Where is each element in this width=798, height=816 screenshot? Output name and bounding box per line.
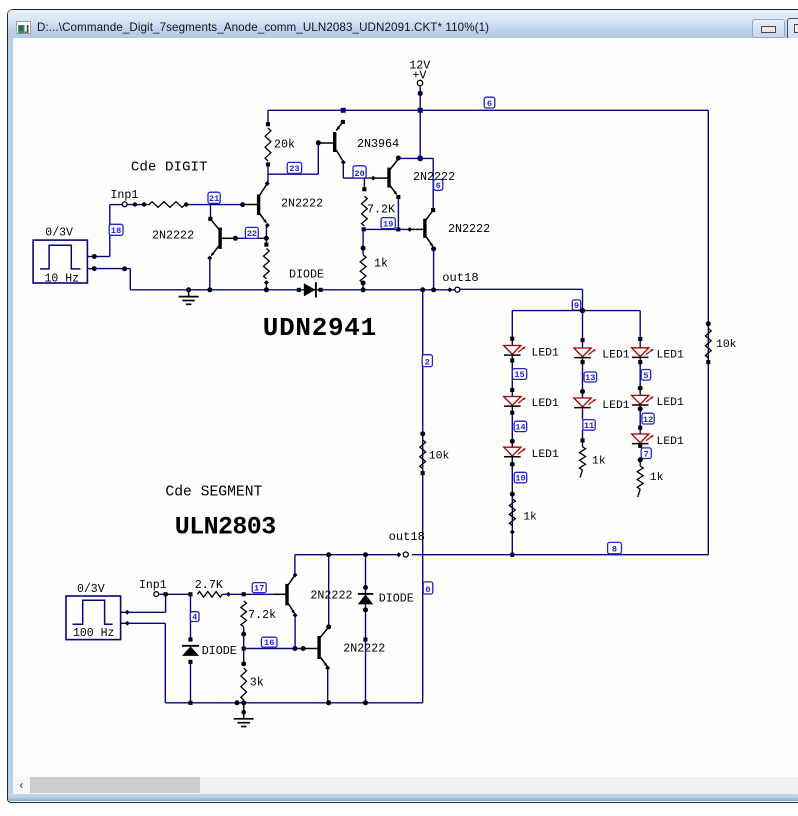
node 22 [233, 236, 238, 241]
wire 12V to right vertical [707, 110, 709, 554]
wire LED bottom rail y=554.7 [412, 554, 709, 556]
resistor 7.2K [362, 187, 366, 191]
minimize button [752, 19, 785, 38]
ground (top section) [186, 287, 191, 292]
svg-text:LED1: LED1 [657, 436, 685, 448]
node 4 [190, 612, 199, 622]
wire bottom rail y=702.8 [165, 702, 422, 704]
wire source2 bottom pin to rail [127, 622, 165, 624]
svg-text:13: 13 [585, 373, 595, 383]
title bar [8, 10, 798, 38]
node 21 [240, 202, 245, 207]
node 18 [109, 224, 123, 235]
maximize button (partial) [787, 18, 798, 39]
node 6 (Q4 collector) [434, 180, 443, 191]
svg-text:100 Hz: 100 Hz [73, 627, 114, 640]
svg-text:1k: 1k [523, 512, 537, 524]
wire long vertical x=422.7 [422, 290, 424, 703]
svg-text:LED1: LED1 [532, 347, 560, 359]
wire LED column 1 [511, 311, 513, 555]
node 13 [584, 372, 597, 382]
node 19 [381, 218, 395, 229]
svg-text:10k: 10k [716, 339, 737, 351]
title text [37, 21, 489, 34]
svg-text:Cde DIGIT: Cde DIGIT [131, 160, 208, 176]
svg-text:9: 9 [574, 301, 579, 311]
resistor 1k (top section) [362, 229, 364, 254]
svg-text:0: 0 [425, 585, 430, 595]
transistor Q1 2N2222 (upper left) [265, 181, 270, 186]
transistor Q6 2N2222 (bottom lower) [303, 648, 318, 650]
resistor (Inp1 series, unlabeled) [149, 202, 185, 208]
transistor Q4 2N2222 (right) [407, 227, 412, 232]
node 7 [641, 448, 651, 459]
svg-text:4: 4 [192, 612, 197, 622]
node 9 [572, 300, 580, 310]
wire ground rail y=289.8 [130, 289, 455, 291]
svg-text:out18: out18 [389, 530, 425, 544]
svg-text:11: 11 [584, 421, 594, 431]
LED1 c2-2 [580, 389, 585, 394]
pulse source 0/3V 10 Hz [33, 240, 87, 283]
resistor 3k [241, 661, 246, 666]
transistor Q2 2N2222 (mirrored, lower left) [210, 205, 212, 219]
wire Inp1 row y=594.3 [159, 593, 191, 595]
svg-text:23: 23 [289, 164, 299, 174]
svg-text:16: 16 [264, 638, 274, 648]
wire Q5 emitter down [294, 615, 296, 648]
LED1 c3-1 [638, 337, 642, 341]
wire diode-left drop x=190.5 [190, 594, 192, 639]
svg-text:22: 22 [247, 229, 257, 239]
svg-text:1k: 1k [592, 455, 606, 467]
wire Q1 emitter column x=266 [265, 225, 267, 244]
node 23 junction dot [316, 140, 321, 145]
svg-text:14: 14 [515, 422, 525, 432]
wire +V bus y=110 [268, 109, 708, 111]
wire 7.2K stub [363, 178, 365, 189]
svg-text:20: 20 [354, 169, 364, 179]
svg-text:19: 19 [383, 219, 393, 229]
svg-text:1k: 1k [650, 472, 664, 484]
horizontal scrollbar [13, 777, 798, 794]
resistor (Q1 emitter, unlabeled) [264, 243, 268, 247]
svg-text:15: 15 [514, 370, 524, 380]
wire collector row y=158.4 [398, 157, 433, 159]
wire Q6 collector up [328, 555, 330, 627]
svg-text:Inp1: Inp1 [139, 579, 167, 592]
svg-text:2: 2 [425, 357, 430, 367]
resistor 1k c2 [581, 438, 585, 442]
resistor 1k c3 [638, 457, 643, 462]
node 16 [261, 637, 277, 647]
svg-text:2N2222: 2N2222 [310, 588, 352, 602]
node 14 [514, 421, 527, 431]
svg-text:LED1: LED1 [657, 397, 685, 409]
source pin bottom [87, 268, 94, 270]
wire diode-left to rail [190, 662, 192, 703]
junctions on bottom rail [188, 701, 192, 705]
junction rail/long vertical [420, 287, 425, 292]
node 11 [583, 420, 595, 431]
junction c1 rail [510, 553, 514, 557]
svg-text:out18: out18 [442, 271, 478, 285]
wire 20k bottom / node 23 tee [267, 165, 269, 184]
node 17 [252, 583, 266, 593]
pulse source 0/3V 100 Hz [66, 596, 121, 640]
junction Q2 emitter rail [207, 287, 212, 292]
svg-text:2N2222: 2N2222 [152, 228, 194, 242]
svg-text:12: 12 [643, 415, 653, 425]
node 6 (bus) [484, 97, 495, 108]
diode DIODE (bottom left) [188, 638, 192, 642]
bottom frame strip [8, 793, 798, 801]
transistor Q7 2N3964 (PNP) [341, 120, 345, 124]
LED1 c1-1 [510, 337, 514, 341]
svg-text:10 Hz: 10 Hz [45, 273, 80, 286]
source2 pin top [121, 611, 128, 613]
svg-text:DIODE: DIODE [202, 644, 237, 658]
svg-text:LED1: LED1 [602, 349, 630, 361]
svg-text:LED1: LED1 [657, 349, 685, 361]
svg-text:7: 7 [644, 449, 649, 459]
svg-text:7.2K: 7.2K [367, 203, 395, 217]
svg-text:17: 17 [254, 583, 264, 593]
node 8 [608, 542, 622, 553]
ground (bottom section) [243, 703, 245, 719]
source2 pin bottom [121, 622, 128, 624]
wire Q4 emitter to rail [433, 249, 435, 290]
wire 2N3964 collector to node 20 row [342, 162, 344, 178]
wire LED column 3 [639, 311, 641, 449]
svg-text:UDN2941: UDN2941 [263, 313, 377, 343]
svg-text:Inp1: Inp1 [110, 188, 138, 202]
diode DIODE (bottom right) [365, 555, 367, 703]
wire Q3 emitter drop [397, 197, 399, 229]
wire LED column 2 [582, 311, 584, 420]
svg-text:6: 6 [487, 99, 492, 109]
LED1 c1-3 [510, 439, 515, 444]
node 5 [641, 370, 651, 381]
node 20 [353, 166, 366, 178]
svg-text:0/3V: 0/3V [77, 583, 105, 596]
svg-text:2N2222: 2N2222 [343, 642, 385, 656]
svg-text:6: 6 [436, 181, 441, 191]
wire out18 row to Q5 collector corner [295, 554, 397, 556]
node 10 [514, 472, 527, 483]
source pin top [87, 256, 94, 258]
resistor 10k (right) [706, 321, 711, 326]
wire source bottom to ground rail [94, 268, 130, 270]
svg-text:DIODE: DIODE [289, 267, 324, 281]
wire drop to Q4 collector x=433 [432, 158, 434, 210]
resistor 1k c1 [510, 492, 515, 497]
svg-text:20k: 20k [274, 138, 295, 152]
svg-text:18: 18 [111, 226, 121, 236]
node 2 [422, 355, 432, 367]
svg-text:0/3V: 0/3V [45, 227, 73, 240]
wire Q2 emitter to rail [209, 258, 211, 290]
svg-text:LED1: LED1 [532, 449, 560, 461]
wire bus left drop to 20k [267, 110, 269, 124]
svg-text:2.7K: 2.7K [195, 578, 223, 592]
transistor Q5 2N2222 (bottom upper) [275, 593, 287, 595]
svg-text:10k: 10k [429, 451, 450, 463]
wire Q5 collector up [294, 555, 296, 575]
resistor 10k (middle) [420, 431, 425, 436]
node 15 [512, 369, 526, 380]
wire Q6 emitter to rail [327, 668, 329, 703]
svg-text:3k: 3k [250, 676, 264, 690]
svg-text:10: 10 [515, 474, 525, 484]
node 0 [423, 582, 433, 594]
LED1 c1-2 [510, 388, 514, 392]
svg-text:21: 21 [209, 194, 219, 204]
transistor Q3 2N2222 (middle) [373, 177, 388, 179]
LED1 c2-1 [581, 338, 585, 342]
wire LED top row y=310.6 [512, 310, 640, 312]
node 23 [287, 162, 301, 173]
node 12 [642, 413, 654, 424]
svg-text:LED1: LED1 [532, 398, 560, 410]
svg-text:5: 5 [643, 371, 648, 381]
svg-text:DIODE: DIODE [379, 592, 414, 606]
LED1 c3-2 [638, 386, 643, 391]
svg-text:8: 8 [612, 545, 617, 555]
svg-text:1k: 1k [374, 257, 388, 271]
document icon [16, 21, 31, 34]
svg-text:2N2222: 2N2222 [448, 222, 490, 236]
wire Inp1 drop to source [109, 205, 111, 257]
svg-text:ULN2803: ULN2803 [175, 513, 276, 542]
svg-text:7.2k: 7.2k [248, 608, 276, 622]
wire Inp1 row y=204.5 [184, 204, 244, 206]
wire 7.2k to node16 row [243, 627, 245, 664]
junction R rail [264, 287, 269, 292]
wire node16 row y=648.5 [244, 648, 303, 650]
svg-text:Cde SEGMENT: Cde SEGMENT [165, 485, 262, 501]
svg-text:2N2222: 2N2222 [281, 196, 323, 210]
left frame strip [8, 38, 13, 794]
wire out18 to LED block [460, 288, 583, 290]
resistor 7.2k (bottom) [241, 601, 247, 627]
wire source2 top pin up to Inp1 [127, 611, 166, 613]
svg-text:2N3964: 2N3964 [357, 137, 399, 151]
LED1 c3-3 [638, 426, 642, 430]
wire node 19 row y=229.4 [364, 228, 410, 230]
svg-text:LED1: LED1 [602, 400, 630, 412]
resistor 20k [266, 122, 270, 126]
